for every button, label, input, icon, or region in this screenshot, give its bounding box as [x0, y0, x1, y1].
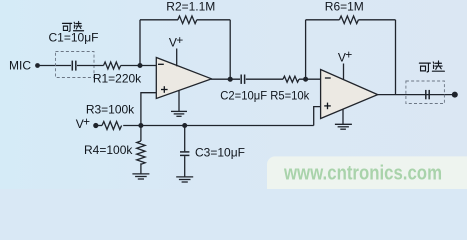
- op-amp U2: [321, 70, 378, 119]
- capacitor C4 (optional, in dashed box): [406, 81, 445, 104]
- wire R1 to op-amp U1 inverting input, junction node A: [121, 63, 157, 68]
- resistor R4: [84, 126, 145, 165]
- wire C2 to R5: [246, 78, 283, 80]
- wire bias rail to U2 non-inverting corner, junction nodes D and E: [123, 123, 314, 128]
- resistor R2: [166, 0, 215, 24]
- svg-text:R1=220k: R1=220k: [93, 71, 142, 85]
- wire feedback top left: [140, 19, 178, 21]
- label 可选 (optional) for C4: [419, 61, 444, 72]
- svg-text:R4=100k: R4=100k: [84, 143, 133, 157]
- node MIC (input terminal): [9, 58, 40, 72]
- op-amp U1: [156, 58, 211, 99]
- capacitor C1 (optional, in dashed box): [56, 52, 95, 78]
- wire C1 to R1: [77, 65, 104, 67]
- wire V+ node to R3: [96, 125, 102, 127]
- capacitor C2: [241, 75, 244, 84]
- wire feedback 2 top left: [306, 19, 340, 21]
- wire node D up to U1 + input: [141, 93, 156, 126]
- resistor R3: [86, 102, 135, 129]
- svg-text:C2=10μF R5=10k: C2=10μF R5=10k: [220, 88, 310, 102]
- capacitor C3: [180, 126, 189, 177]
- power V+ bias rail: [76, 114, 99, 131]
- resistor R5: [283, 76, 299, 82]
- wire MIC to C1: [40, 65, 72, 67]
- svg-text:+: +: [176, 33, 183, 47]
- power V+ for U2: [338, 48, 352, 80]
- ground under C3: [176, 177, 193, 182]
- wire U2 output: [377, 94, 452, 96]
- wire R5 to U2 inverting input, junction node C: [299, 77, 321, 82]
- ground under U2: [335, 109, 352, 129]
- ground under R4: [132, 163, 149, 179]
- wire feedback right vertical down to node B: [229, 20, 231, 79]
- wire feedback left vertical (node A up): [139, 20, 141, 66]
- wire feedback 2 left vertical: [305, 20, 307, 79]
- svg-text:R3=100k: R3=100k: [86, 102, 135, 116]
- svg-text:MIC: MIC: [9, 58, 31, 72]
- svg-text:C3=10μF: C3=10μF: [195, 145, 245, 159]
- power V+ for U1: [169, 33, 183, 67]
- resistor R6: [325, 0, 364, 24]
- svg-text:+: +: [345, 48, 352, 62]
- watermark band: [267, 156, 467, 189]
- wire up to U2 + input: [314, 107, 321, 126]
- label 可选 (optional) for C1: [62, 21, 83, 31]
- svg-text:R2=1.1M: R2=1.1M: [166, 0, 215, 13]
- resistor R1: [93, 62, 142, 85]
- node output terminal: [452, 92, 458, 98]
- svg-text:R6=1M: R6=1M: [325, 0, 364, 13]
- ground under U1: [171, 90, 187, 116]
- svg-text:www.cntronics.com: www.cntronics.com: [283, 163, 442, 185]
- wire feedback 2 top right: [358, 19, 395, 21]
- wire U1 output to C2, node B junction: [211, 77, 240, 82]
- wire feedback top right: [197, 19, 230, 21]
- wire feedback 2 right vertical down to output: [395, 20, 397, 95]
- svg-text:C1=10μF: C1=10μF: [49, 30, 99, 44]
